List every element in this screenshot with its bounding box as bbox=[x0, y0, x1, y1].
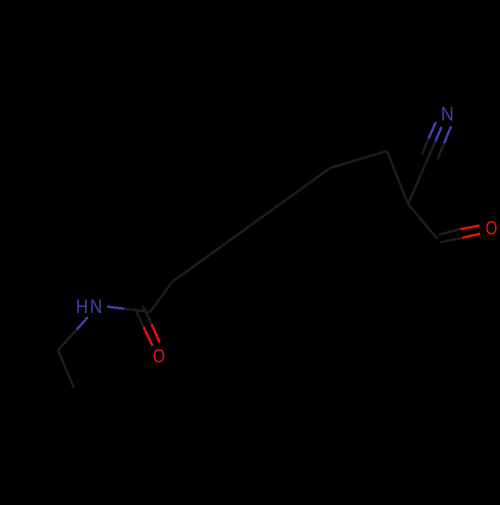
wire: N-C1 amide bond dark half bbox=[124, 309, 150, 312]
svg-text:O: O bbox=[153, 347, 165, 368]
wire: nitrile main line blue part bbox=[435, 127, 441, 141]
wire: nitrile side line right dark half bbox=[438, 143, 445, 159]
wire: nitrile side line left dark half bbox=[422, 139, 429, 155]
wire: V2-A bond bbox=[387, 151, 408, 204]
wire: nitrile side line right blue half bbox=[444, 127, 451, 144]
wire: C1=O1 double bond line2 red half bbox=[152, 324, 160, 342]
wire: Cald=O2 double bond upper line dark half bbox=[439, 229, 461, 235]
svg-text:H: H bbox=[76, 297, 88, 318]
svg-text:N: N bbox=[90, 297, 102, 318]
wire: Cald=O2 double bond upper line red half bbox=[460, 226, 479, 230]
svg-text:O: O bbox=[485, 218, 497, 239]
wire: X1-V2 bond bbox=[330, 151, 387, 168]
wire: C1-C2 bond bbox=[150, 282, 172, 312]
wire: C1=O1 double bond line2 dark half bbox=[143, 306, 152, 324]
wire: C1=O1 double bond line1 red half bbox=[144, 327, 153, 346]
wire: nitrile main line dark part (A to C to mid of CN) bbox=[408, 141, 435, 204]
wire: C1=O1 double bond line1 dark half bbox=[135, 309, 144, 328]
wire: A-Cald bond bbox=[408, 204, 438, 239]
wire: N-C1 amide bond blue half bbox=[107, 307, 124, 309]
svg-text:N: N bbox=[441, 105, 454, 126]
wire: long chain C2 to X1 bbox=[172, 168, 330, 282]
wire: Cald=O2 double bond lower line dark half bbox=[440, 238, 462, 243]
wire: ethyl CH2-CH3 bond bbox=[58, 350, 74, 388]
wire: nitrile side line left blue half bbox=[429, 122, 437, 139]
wire: N-CH2 bond dark half bbox=[58, 330, 77, 351]
wire: Cald=O2 double bond lower line red half bbox=[462, 234, 480, 238]
wire: N-CH2 bond blue half bbox=[77, 317, 88, 329]
